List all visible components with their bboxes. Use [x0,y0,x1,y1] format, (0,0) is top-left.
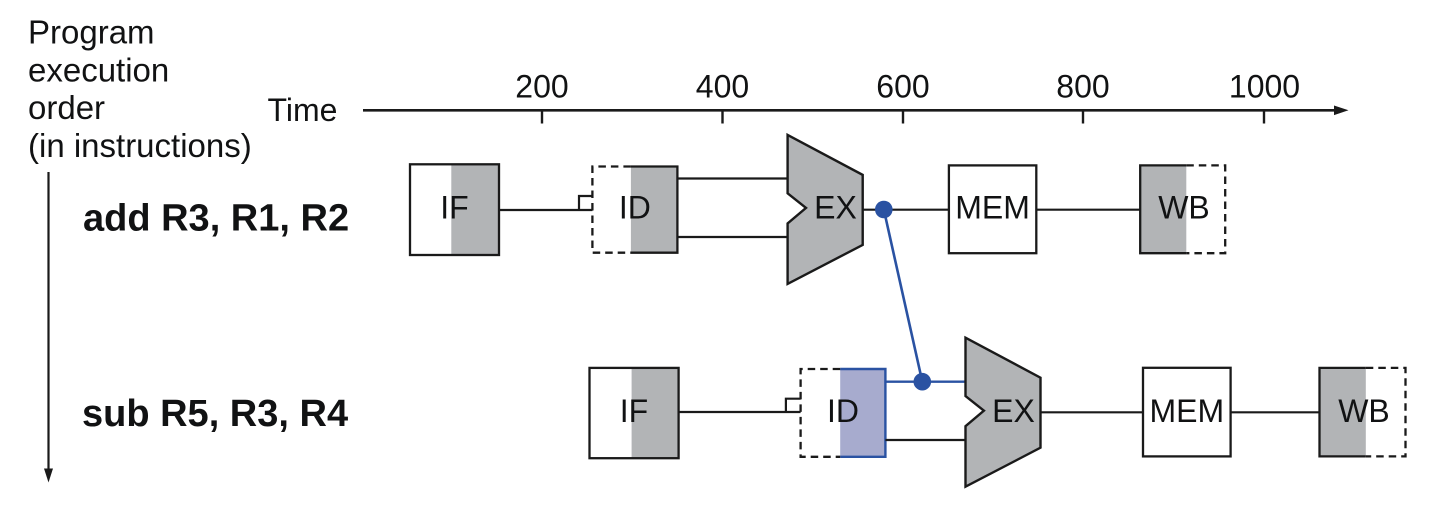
svg-text:400: 400 [696,68,749,104]
svg-text:WB: WB [1338,393,1390,429]
svg-text:EX: EX [814,190,857,226]
svg-text:800: 800 [1056,68,1109,104]
svg-text:MEM: MEM [1149,393,1224,429]
svg-text:IF: IF [620,393,648,429]
svg-text:sub R5, R3, R4: sub R5, R3, R4 [82,393,348,435]
svg-text:IF: IF [440,190,468,226]
svg-text:MEM: MEM [955,190,1030,226]
svg-text:EX: EX [992,393,1035,429]
svg-text:(in instructions): (in instructions) [28,127,252,164]
svg-text:ID: ID [619,190,651,226]
svg-text:WB: WB [1158,190,1210,226]
svg-text:ID: ID [827,393,859,429]
svg-text:Time: Time [268,92,338,128]
svg-text:600: 600 [876,68,929,104]
svg-text:200: 200 [515,68,568,104]
svg-text:add R3, R1, R2: add R3, R1, R2 [83,198,349,240]
svg-text:execution: execution [28,51,169,88]
svg-text:Program: Program [28,14,155,51]
svg-text:order: order [28,89,105,126]
svg-text:1000: 1000 [1229,68,1300,104]
